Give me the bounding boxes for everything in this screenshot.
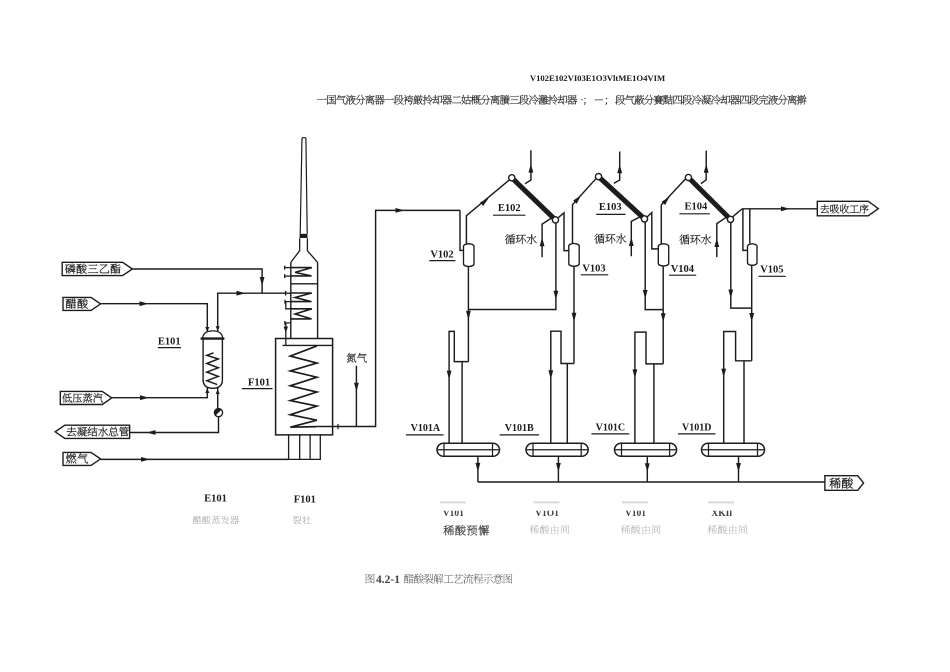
- label V101D: [678, 422, 716, 434]
- furnace convection section walls: [291, 262, 318, 338]
- external jumper bank2 to bank3: [285, 300, 291, 309]
- wire V102 drain downcomer: [466, 267, 471, 362]
- wire E104 outlet and product line to absorption: [733, 206, 818, 250]
- wire V105 drain downcomer: [749, 266, 754, 361]
- wire fuel gas line to furnace burners: [101, 457, 289, 462]
- wire E102 vent: [525, 150, 533, 184]
- wire E101 vapor outlet riser to furnace: [216, 291, 291, 332]
- wire E101 condensate to steam trap: [216, 388, 220, 409]
- label V104: [669, 264, 696, 275]
- wire E103 condensate downcomer: [643, 222, 663, 309]
- furnace burner legs: [289, 435, 321, 460]
- svg-text:E101: E101: [204, 493, 227, 504]
- svg-text:V104: V104: [671, 264, 695, 275]
- svg-text:V101A: V101A: [411, 423, 441, 434]
- svg-text:E104: E104: [685, 202, 709, 213]
- faded label 稀酸由间 d: [708, 525, 748, 534]
- vessel E101 vaporizer: [201, 331, 225, 388]
- caption 图4.2-1 醋酸裂解工艺流程示意图: [366, 574, 513, 586]
- label 氮气 nitrogen: [347, 353, 367, 363]
- wire seal loop into V101D: [721, 332, 751, 444]
- condenser E103 inclined bar: [595, 174, 647, 222]
- wire V101D drain: [736, 456, 741, 482]
- svg-text:V103: V103: [582, 263, 605, 274]
- svg-text:E101: E101: [158, 336, 181, 347]
- vessel V102 knockout pot: [464, 244, 475, 267]
- svg-text:V102: V102: [430, 250, 453, 261]
- wire furnace outlet riser to quench train: [316, 208, 460, 429]
- label 稀酸预懈: [443, 525, 489, 535]
- clipped label V101: [443, 509, 464, 519]
- wire cooling water riser E102: [540, 217, 553, 257]
- subtitle chinese line: [317, 95, 806, 105]
- vessel V104 knockout pot: [658, 244, 668, 266]
- convection coil bank 3: [291, 309, 312, 319]
- label 循环水 cooling water E102: [505, 234, 537, 244]
- vessel V103 knockout pot: [569, 244, 579, 267]
- wire acetic acid feed line into E101: [101, 301, 210, 332]
- wire LP steam line into E101 bottom: [112, 388, 210, 400]
- wire condensate to header flag: [130, 417, 219, 435]
- label E104: [679, 202, 709, 214]
- label E103: [596, 202, 625, 214]
- title line V102E102VI03E1O3VltME1O4VIM: [530, 73, 665, 83]
- condenser E104 inclined bar: [685, 174, 733, 222]
- vessel V101D drum: [702, 443, 765, 456]
- convection coil bank 1: [291, 268, 312, 276]
- flag 去凝结水总管 (to condensate header): [55, 425, 129, 438]
- faded label 醋酸蒸发器: [193, 516, 239, 525]
- flag 低压蒸汽 (LP steam): [60, 391, 111, 404]
- faded label 裂牡: [293, 516, 311, 524]
- wire V104 overhead to E104: [661, 179, 685, 244]
- label F101: [242, 377, 273, 388]
- wire dilute acid collection header: [478, 481, 825, 483]
- stack damper band: [300, 234, 308, 238]
- svg-text:V105: V105: [760, 265, 783, 276]
- flag 磷酸三乙酯 (triethyl phosphate feed): [62, 262, 132, 275]
- svg-text:E103: E103: [599, 202, 622, 213]
- wire V102 overhead to E102: [466, 180, 509, 244]
- furnace F101 radiant box: [276, 339, 333, 435]
- clipped label V1O1: [535, 509, 559, 519]
- wire seal loop into V101C: [633, 332, 664, 443]
- wire nitrogen purge line: [354, 366, 359, 427]
- flag 燃气 (fuel gas): [63, 452, 101, 465]
- label 循环水 cooling water E104: [679, 234, 711, 244]
- wire E104 condensate downcomer: [728, 223, 751, 309]
- label V101B: [500, 423, 539, 435]
- wire seal loop into V101A: [447, 331, 469, 443]
- svg-text:V101B: V101B: [505, 423, 534, 434]
- svg-text:V102E102VI03E1O3VltME1O4VIM: V102E102VI03E1O3VltME1O4VIM: [530, 73, 665, 83]
- flag 醋酸 (acetic acid feed): [63, 297, 101, 310]
- wire E102 outlet to V103: [558, 213, 568, 251]
- label E102: [493, 203, 525, 215]
- wire V104 drain downcomer: [661, 266, 666, 364]
- label F101 bottom list: [294, 494, 316, 505]
- steam trap valve: [214, 409, 222, 417]
- wire V101A drain: [476, 456, 481, 482]
- condenser E102 inclined bar: [509, 175, 559, 223]
- convection coil bank 2: [291, 293, 312, 302]
- convection bank1 nozzle stubs: [284, 266, 290, 279]
- label V101A: [406, 423, 444, 435]
- label V105: [759, 265, 786, 277]
- vessel V101A drum: [437, 443, 500, 456]
- wire phosphate injection line: [132, 269, 264, 293]
- external jumper bank3 to radiant coil: [284, 321, 291, 345]
- svg-text:E102: E102: [498, 203, 521, 214]
- wire E102 condensate downcomer: [468, 223, 558, 310]
- clipped label V101 under C: [625, 509, 646, 519]
- wire E104 vent: [701, 151, 709, 184]
- vessel V101C drum: [615, 443, 677, 456]
- flag 去吸收工序 (to absorption section): [817, 201, 878, 216]
- flag 稀酸 (dilute acid): [825, 476, 864, 491]
- label V101C: [591, 422, 629, 434]
- label V103: [581, 263, 608, 275]
- faded label 稀酸由间 b: [530, 525, 570, 534]
- svg-text:F101: F101: [294, 494, 316, 505]
- svg-text:F101: F101: [248, 377, 270, 388]
- vessel V105 knockout pot: [748, 244, 758, 265]
- clip band over V101 row: [428, 504, 750, 511]
- wire V103 overhead to E103: [573, 179, 596, 244]
- faded label 稀酸由间 c: [621, 525, 661, 534]
- wire cooling water riser E104: [714, 218, 725, 257]
- wire E103 vent: [614, 152, 622, 184]
- svg-text:V101C: V101C: [596, 422, 625, 433]
- ghost smudge row: [440, 501, 734, 503]
- label V102: [429, 250, 455, 261]
- label 循环水 cooling water E103: [594, 234, 626, 244]
- label E101: [158, 336, 181, 347]
- wire E103 outlet to V104: [647, 213, 658, 249]
- furnace hood trapezoid: [291, 238, 318, 262]
- wire inlet to V102: [460, 210, 464, 250]
- vessel V101B drum: [526, 443, 588, 456]
- svg-text:V101D: V101D: [682, 422, 711, 433]
- svg-text:4.2-1: 4.2-1: [376, 574, 400, 586]
- wire seal loop into V101B: [548, 331, 574, 443]
- furnace chimney stack: [300, 138, 307, 234]
- wire V101C drain: [645, 456, 650, 482]
- wire V101B drain: [556, 456, 561, 482]
- clipped label XKIl: [711, 509, 732, 519]
- wire cooling water riser E103: [629, 216, 641, 256]
- wire V103 drain downcomer: [572, 266, 577, 363]
- label E101 bottom list: [204, 493, 227, 504]
